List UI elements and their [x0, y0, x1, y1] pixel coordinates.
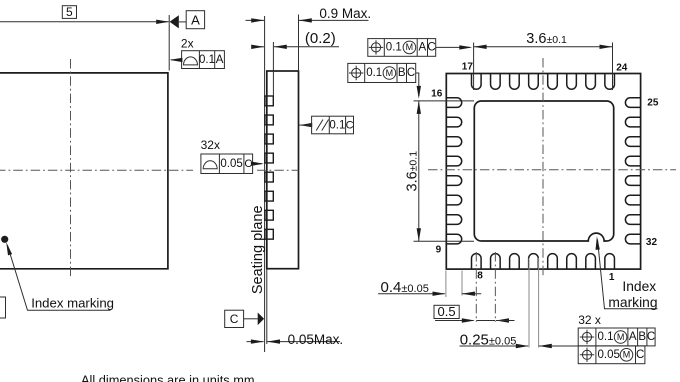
svg-text:A: A [191, 12, 200, 27]
left view vertical centerline [70, 59, 72, 279]
svg-text:A: A [418, 42, 426, 54]
svg-text:0.1: 0.1 [199, 54, 215, 66]
top pins 17-24 [472, 74, 615, 89]
svg-text:C: C [407, 67, 415, 79]
position frame 0.1 M A B C [578, 328, 655, 346]
svg-text:9: 9 [436, 244, 442, 255]
svg-text:marking: marking [608, 295, 657, 310]
dimension 5 (basic, boxed) [0, 5, 169, 24]
32 x label [578, 313, 601, 327]
datum C [225, 310, 264, 327]
svg-text:32 x: 32 x [578, 313, 601, 327]
bottom view horizontal centerline [428, 169, 676, 171]
svg-text:32: 32 [646, 237, 658, 248]
svg-text:24: 24 [616, 62, 628, 73]
svg-text:3.6±0.1: 3.6±0.1 [526, 31, 567, 47]
dimension 0.5 (basic, boxed) [434, 304, 515, 323]
note text [81, 373, 255, 382]
index marking label [31, 295, 114, 310]
side view pins [265, 96, 273, 239]
svg-text:C: C [647, 331, 655, 343]
svg-text:C: C [427, 42, 435, 54]
index marking label right [608, 279, 657, 310]
svg-text:Index marking: Index marking [31, 295, 114, 310]
svg-text:All dimensions are in units mm: All dimensions are in units mm [81, 373, 255, 382]
svg-text:C: C [346, 120, 354, 132]
exposed pad with index notch [474, 101, 613, 241]
svg-text:2x: 2x [181, 36, 194, 50]
position frame 0.05 M C [578, 346, 645, 364]
left top view body [0, 73, 168, 269]
dimension 0.25 [460, 331, 579, 348]
svg-text:0.4±0.05: 0.4±0.05 [381, 279, 429, 296]
body edge extension below [266, 269, 268, 344]
32x label side [201, 138, 220, 152]
svg-text:B: B [398, 67, 406, 79]
dimension 0.9 Max [246, 6, 372, 70]
svg-text:0.05: 0.05 [598, 349, 620, 361]
position frame 0.1 M B C [348, 63, 421, 99]
dimension (0.2) [251, 30, 339, 49]
pin number labels [431, 62, 659, 284]
dimension 3.6 top [474, 31, 613, 90]
dimension 3.6 left [405, 101, 475, 241]
svg-text:16: 16 [431, 89, 443, 100]
svg-text:(0.2): (0.2) [305, 30, 336, 47]
cut-off datum box at left edge [0, 297, 6, 318]
0.2 extension line [272, 42, 274, 96]
svg-text:A: A [629, 331, 637, 343]
svg-text:8: 8 [477, 270, 483, 281]
extension line right edge of top view [168, 15, 170, 71]
svg-text:A: A [216, 54, 224, 66]
svg-text:C: C [230, 312, 239, 326]
svg-text:Seating plane: Seating plane [250, 205, 266, 294]
svg-text:32x: 32x [201, 138, 220, 152]
seating plane label [250, 205, 266, 294]
svg-text:M: M [386, 68, 394, 78]
dimension 0.4 [378, 279, 481, 296]
bottom view outer body [446, 74, 640, 270]
side view body [267, 71, 299, 269]
svg-text:M: M [406, 42, 414, 52]
0.4 extension lines [446, 271, 462, 298]
svg-text:M: M [617, 332, 625, 342]
parallelism frame 0.1 C [299, 116, 353, 134]
svg-text:M: M [623, 350, 631, 360]
2x label [181, 36, 194, 50]
0.25 extension lines [529, 258, 539, 348]
svg-text:0.25±0.05: 0.25±0.05 [460, 331, 517, 348]
svg-text:1: 1 [609, 272, 615, 283]
side view horizontal centerline [257, 169, 299, 171]
svg-text:0.1: 0.1 [366, 67, 382, 79]
bottom pins 8-1 [472, 254, 615, 269]
svg-text:C: C [636, 349, 644, 361]
profile frame 0.1 A [169, 51, 224, 69]
pin 8 and 7 centerlines extensions [476, 252, 495, 322]
svg-text:0.05: 0.05 [220, 158, 242, 170]
svg-text:0.05Max.: 0.05Max. [288, 332, 344, 347]
left view horizontal centerline [0, 169, 193, 171]
svg-text:25: 25 [647, 98, 659, 109]
right pins 25-32 [625, 98, 640, 244]
datum A [170, 11, 205, 29]
dimension 0.05 Max [247, 332, 344, 347]
svg-text:0.9 Max.: 0.9 Max. [319, 6, 371, 21]
left pins 16-9 [447, 98, 462, 244]
svg-text:0.5: 0.5 [438, 304, 456, 319]
svg-text:B: B [638, 331, 646, 343]
seating plane line [264, 16, 266, 352]
index marking leader [6, 242, 110, 310]
index marking dot [1, 236, 8, 243]
svg-text:3.6±0.1: 3.6±0.1 [405, 151, 421, 192]
svg-text:0.1: 0.1 [386, 42, 402, 54]
svg-text:0.1: 0.1 [329, 120, 345, 132]
index marking leader right [596, 236, 658, 308]
profile frame 0.05 C [201, 154, 264, 174]
position frame 0.1 M A C [368, 39, 473, 57]
svg-text:Index: Index [622, 279, 656, 294]
svg-text:5: 5 [66, 5, 73, 19]
svg-text:17: 17 [462, 62, 474, 73]
bottom view vertical centerline [542, 58, 544, 278]
svg-text:0.1: 0.1 [598, 331, 614, 343]
